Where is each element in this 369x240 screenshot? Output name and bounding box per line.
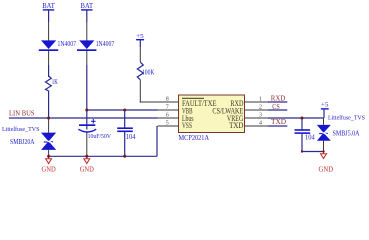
svg-text:8: 8 <box>166 96 169 102</box>
svg-text:TXD: TXD <box>229 121 243 130</box>
svg-text:1K: 1K <box>52 79 58 86</box>
svg-text:BAT: BAT <box>81 2 94 10</box>
svg-text:SMBJ5.0A: SMBJ5.0A <box>333 130 360 137</box>
svg-text:3: 3 <box>259 112 262 118</box>
svg-text:RXD: RXD <box>271 95 286 103</box>
svg-text:4: 4 <box>259 120 262 126</box>
svg-text:104: 104 <box>305 135 315 142</box>
svg-text:+5: +5 <box>321 102 329 109</box>
svg-text:LIN BUS: LIN BUS <box>9 110 35 118</box>
svg-text:7: 7 <box>166 104 169 110</box>
svg-text:5: 5 <box>166 120 169 126</box>
svg-text:6: 6 <box>166 112 169 118</box>
svg-text:GND: GND <box>319 165 334 174</box>
svg-text:Littelfuse_TVS: Littelfuse_TVS <box>2 126 40 133</box>
svg-text:CS: CS <box>272 103 279 111</box>
svg-text:1N4007: 1N4007 <box>58 41 77 48</box>
svg-text:1: 1 <box>259 96 262 102</box>
svg-text:GND: GND <box>42 164 56 173</box>
svg-text:10uF/50V: 10uF/50V <box>88 133 112 140</box>
svg-text:VSS: VSS <box>182 121 192 130</box>
svg-text:TXD: TXD <box>271 118 286 126</box>
svg-text:MCP2021A: MCP2021A <box>179 133 210 142</box>
svg-text:2: 2 <box>259 104 262 110</box>
svg-text:100K: 100K <box>142 70 155 77</box>
svg-text:104: 104 <box>126 134 136 141</box>
svg-text:Littelfuse_TVS: Littelfuse_TVS <box>328 115 365 122</box>
svg-text:1N4007: 1N4007 <box>96 41 115 48</box>
svg-text:+5: +5 <box>136 33 144 40</box>
svg-text:GND: GND <box>80 164 94 173</box>
svg-text:SMBJ20A: SMBJ20A <box>10 139 35 146</box>
svg-text:BAT: BAT <box>42 2 55 10</box>
